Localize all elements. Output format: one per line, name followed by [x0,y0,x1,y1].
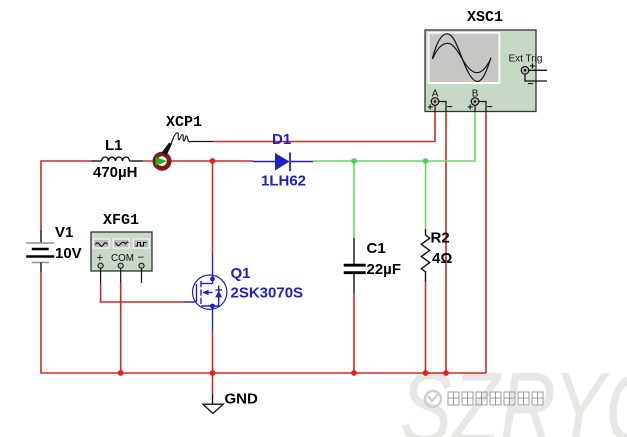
svg-text:D1: D1 [272,131,291,148]
resistor R2 [421,229,429,282]
junction node at Q1 drain / top rail [210,158,216,164]
svg-text:1LH62: 1LH62 [261,173,306,190]
value label 470µH [93,164,138,181]
label V1 [55,224,73,241]
label C1 [367,240,386,257]
watermark SZRYC [400,353,627,437]
wire green output rail to scope B+ [313,112,475,162]
svg-text:10V: 10V [55,245,82,262]
inductor L1 [92,157,143,161]
svg-text:4Ω: 4Ω [432,250,452,267]
current probe XCP1 [155,133,213,169]
svg-text:XSC1: XSC1 [467,9,503,26]
svg-text:C1: C1 [367,240,386,257]
value label 22µF [367,261,402,278]
svg-text:GND: GND [225,391,259,408]
ground [203,394,223,413]
svg-text:2SK3070S: 2SK3070S [231,285,304,302]
svg-text:470µH: 470µH [93,164,138,181]
svg-text:V1: V1 [55,224,73,241]
wire green to R2 [425,161,427,229]
junction node R2 at bus [423,370,429,376]
function generator XFG1 [91,232,152,283]
wire scope A- to bus [445,112,447,374]
junction node green at C1 top [351,158,357,164]
junction node GND at bus [210,370,216,376]
label Q1 [231,265,251,282]
svg-text:−: − [138,252,145,264]
svg-text:Ext Trig: Ext Trig [509,54,543,65]
svg-text:Q1: Q1 [231,265,251,282]
battery V1 [26,230,54,272]
wire ground stub [212,373,214,394]
wire left-bottom and ground bus [41,272,486,373]
value label 2SK3070S [231,285,304,302]
watermark chinese text [448,392,543,405]
junction node green at R2 top [423,158,429,164]
wire C1 bottom to bus [353,293,355,373]
wire green to C1 [353,161,355,238]
diode D1 [253,153,313,172]
wire XCP1 output to scope A+ [213,112,435,142]
wire L1 to diode [143,160,254,162]
value label 4Ω [432,250,452,267]
value label 10V [55,245,82,262]
svg-text:22µF: 22µF [367,261,402,278]
label GND [225,391,259,408]
svg-text:L1: L1 [105,137,123,154]
junction node C1 at bus [351,370,357,376]
capacitor C1 [344,238,366,293]
oscilloscope XSC1 [425,30,547,113]
value label 1LH62 [261,173,306,190]
label D1 [272,131,291,148]
wire Q1 source to bus [212,331,214,374]
wire XFG1 COM to bus [120,283,122,373]
label R2 [431,230,450,247]
svg-text:XFG1: XFG1 [103,212,139,229]
label XCP1 [166,114,202,131]
junction node A- at bus [443,370,449,376]
svg-text:+: + [427,102,433,113]
svg-text:SZRYC: SZRYC [400,353,627,437]
label XFG1 [103,212,139,229]
label XSC1 [467,9,503,26]
wire R2 bottom to bus [425,282,427,373]
svg-text:COM: COM [111,253,134,264]
watermark logo circle [425,391,441,407]
svg-text:−: − [487,102,493,113]
wire Q1 drain [212,161,214,254]
junction node XFG COM at bus [118,370,124,376]
wire scope B- riser [485,112,487,374]
transistor Q1 (N-MOSFET) [184,254,227,331]
svg-text:XCP1: XCP1 [166,114,202,131]
svg-text:+: + [467,102,473,113]
wire top-left rail [41,161,92,230]
label L1 [105,137,123,154]
wire XFG1 plus to Q1 gate [101,283,184,302]
svg-text:−: − [447,102,453,113]
svg-text:R2: R2 [431,230,450,247]
